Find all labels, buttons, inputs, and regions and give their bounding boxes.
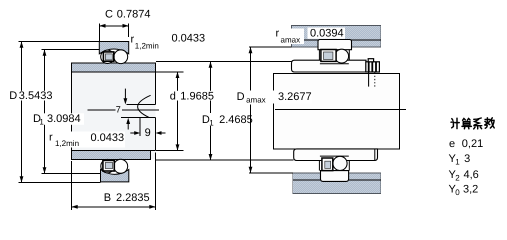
svg-text:0.7874: 0.7874: [117, 8, 151, 20]
svg-text:0.0433: 0.0433: [91, 132, 125, 144]
svg-text:2.4685: 2.4685: [219, 114, 253, 126]
svg-text:1.9685: 1.9685: [180, 90, 214, 102]
svg-text:r: r: [276, 28, 280, 40]
svg-text:D: D: [9, 90, 17, 102]
svg-text:amax: amax: [281, 35, 301, 44]
svg-text:3,2: 3,2: [463, 183, 478, 195]
svg-text:4,6: 4,6: [464, 169, 479, 181]
svg-text:1: 1: [209, 118, 214, 127]
svg-text:e: e: [449, 138, 455, 150]
svg-text:7: 7: [116, 105, 121, 115]
svg-text:d: d: [170, 90, 176, 102]
svg-text:1: 1: [39, 117, 44, 126]
svg-text:2.2835: 2.2835: [116, 192, 150, 204]
svg-text:B: B: [104, 192, 111, 204]
svg-text:0,21: 0,21: [462, 138, 483, 150]
svg-text:1,2min: 1,2min: [135, 41, 159, 50]
svg-text:r: r: [49, 131, 53, 143]
svg-text:1,2min: 1,2min: [55, 139, 79, 148]
svg-text:D: D: [237, 91, 245, 103]
svg-text:3: 3: [464, 153, 470, 165]
svg-text:3.5433: 3.5433: [19, 90, 53, 102]
svg-text:1: 1: [455, 157, 460, 166]
svg-text:amax: amax: [246, 95, 266, 104]
svg-text:0.0394: 0.0394: [310, 27, 344, 39]
svg-text:0.0433: 0.0433: [172, 32, 206, 44]
svg-text:9: 9: [145, 127, 151, 139]
svg-text:C: C: [105, 8, 113, 20]
svg-text:3.2677: 3.2677: [278, 91, 312, 103]
svg-text:0: 0: [455, 188, 460, 197]
svg-text:3.0984: 3.0984: [47, 113, 81, 125]
svg-text:2: 2: [455, 173, 460, 182]
